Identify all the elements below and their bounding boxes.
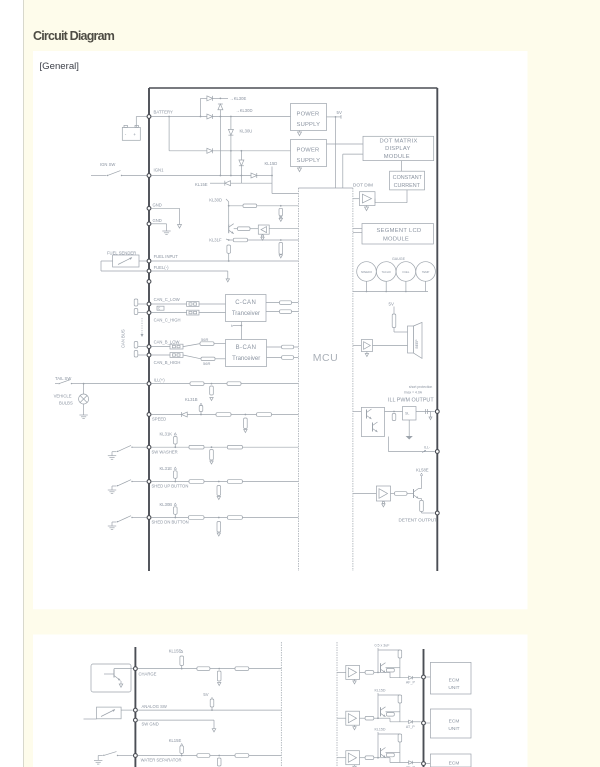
node DETENT OUTPUT terminal (435, 511, 439, 515)
comparator U3 box (258, 225, 269, 234)
ground marker below R11 (280, 216, 282, 218)
diode D7 IGN1 row (251, 173, 257, 178)
resistor R60 driver 1 load (398, 650, 402, 658)
resistor R30 speed series (216, 413, 231, 417)
svg-text:ILL(+): ILL(+) (154, 377, 166, 382)
gauge M4 TEMP (416, 262, 436, 282)
svg-text:SHED DN BUTTON: SHED DN BUTTON (152, 520, 189, 525)
capacitor C1 between CAN C lines (157, 306, 164, 310)
resistor R55 water series (197, 754, 210, 758)
node SW WASHER (147, 445, 151, 449)
svg-text:ANALOG SW: ANALOG SW (142, 704, 167, 709)
wire node2 to ECM2 (426, 722, 430, 724)
op-amp U10 injector driver 3 (346, 751, 360, 765)
svg-text:ECM: ECM (449, 761, 460, 767)
svg-text:KL15E: KL15E (169, 738, 182, 743)
node ILL minus terminal (435, 450, 439, 454)
wire driver 3 collector column (377, 732, 379, 758)
panel 2 white background (33, 635, 528, 767)
ground marker below dot dim amp (366, 206, 368, 208)
wire C-CAN to MCU lower (266, 311, 298, 313)
svg-text:KL15D: KL15D (375, 728, 386, 732)
wire amp to speaker (373, 345, 408, 347)
resistor R56 vertical water filter (217, 758, 221, 766)
resistor R44 shift down series 2 (227, 516, 242, 520)
wire R45 to speaker (393, 328, 395, 333)
resistor R22 CAN B low series (183, 344, 200, 347)
resistor R40 shift up series 2 (227, 480, 242, 484)
arrow ILL minus (422, 450, 426, 453)
wire BATTERY row to diode network (152, 116, 207, 118)
resistor R46 vertical on ILL output (392, 414, 396, 421)
node SPEED (147, 413, 151, 417)
svg-text:KL30U: KL30U (240, 129, 253, 134)
wire BATTERY row to power supply 1 (213, 116, 291, 118)
wire MCU to dot dim amp (353, 198, 360, 200)
svg-text:IGN SW: IGN SW (100, 162, 115, 167)
resistor R29 KL31B pull-up (199, 406, 203, 412)
diode D11 driver 2 output (409, 720, 413, 723)
svg-text:UNIT: UNIT (448, 726, 459, 732)
node injector output 1 (422, 675, 426, 679)
wire branch up to KL30E row (200, 98, 202, 116)
op-amp U2 dot dim driver (359, 192, 375, 206)
svg-text:DETENT OUTPUT: DETENT OUTPUT (399, 517, 438, 522)
resistor R64 driver 3 output (360, 757, 366, 759)
resistor R43 vertical shift down filter (217, 522, 221, 533)
wire SW GND to ground (138, 719, 214, 721)
wire column x241 to KL15E row (240, 151, 242, 160)
svg-text:Imax = 4.0A: Imax = 4.0A (404, 391, 423, 395)
wire diode D1 to KL30E label (213, 97, 228, 99)
svg-text:SUPPLY: SUPPLY (297, 158, 321, 164)
wire column x231 BATTERY to IGN row (230, 117, 232, 130)
resistor R51 vertical charge filter (217, 671, 221, 681)
switch WATER SEPARATOR (97, 756, 99, 761)
wire driver 2 collector column (377, 693, 379, 718)
wire R48 to detent node (421, 512, 423, 514)
svg-text:5V: 5V (203, 692, 208, 697)
svg-text:short protection: short protection (409, 385, 432, 389)
transistor Q6 driver 3 (380, 748, 382, 757)
svg-text:ILL-: ILL- (424, 445, 431, 449)
node spare terminal (147, 280, 151, 284)
ECM unit box 2 (430, 709, 471, 738)
resistor R39 vertical shift up filter (217, 486, 221, 496)
C-CAN tranceiver U4 box (226, 295, 267, 322)
svg-text:5V: 5V (389, 302, 394, 307)
svg-text:Tranceiver: Tranceiver (232, 311, 260, 317)
transistor pack Q2 ILL driver box (361, 407, 384, 436)
wire driver 2 to output node (378, 717, 390, 719)
resistor R17 CAN C termination (136, 312, 147, 314)
wire MCU to beeper amp (353, 345, 362, 347)
wire battery to BATTERY node (135, 117, 137, 128)
constant current box (390, 171, 425, 190)
earth ground below lamp (79, 414, 87, 416)
svg-text:WATER SEPARATOR: WATER SEPARATOR (141, 758, 182, 763)
svg-text:KL58E: KL58E (416, 467, 429, 472)
wire driver 1 to output node (378, 671, 390, 673)
resistor R65 driver 3 feedback (386, 753, 394, 757)
svg-text:KL31E: KL31E (160, 466, 173, 471)
switch TAIL SW (55, 383, 58, 385)
resistor R21 CAN B termination (136, 354, 147, 356)
diode D9 speed input pointing left (182, 412, 188, 417)
svg-text:[General]: [General] (40, 61, 79, 72)
resistor R41 shift down pull-up (174, 507, 178, 515)
wire diode to resistor R30 (187, 414, 216, 416)
node injector output 3 (422, 762, 426, 766)
zener D2 on column KL30E-BATTERY (218, 103, 223, 105)
ground marker below beeper amp (366, 352, 368, 354)
emc filter FL2 CAN C high (152, 312, 187, 314)
op-amp U6 beeper driver (361, 340, 372, 352)
wire CAN bus arrow (141, 318, 143, 334)
switch SHED DN BUTTON (111, 522, 113, 526)
sensor box RH1 (84, 718, 97, 720)
wire R30 to junction (231, 414, 257, 416)
B-CAN tranceiver U5 box (226, 340, 267, 367)
wire ILL driver output row (385, 411, 435, 413)
panel2 connector bus right (423, 649, 425, 767)
svg-text:CAN BUS: CAN BUS (121, 329, 126, 348)
diode D4 vertical KL30U column (228, 129, 233, 135)
resistor R35 vertical washer filter (210, 450, 214, 461)
alternator box A1 (91, 664, 131, 692)
svg-text:TEMP: TEMP (422, 270, 430, 274)
wire driver 3 to output node (378, 757, 390, 759)
resistor R14 vertical below KL31F row (279, 243, 283, 255)
svg-text:SPEEDO: SPEEDO (361, 270, 372, 274)
lamp L1 vehicle bulb (83, 384, 85, 394)
svg-text:TACHO: TACHO (382, 270, 391, 274)
svg-text:KL30B: KL30B (160, 502, 173, 507)
wire shift down row (152, 517, 299, 519)
wire analog row to MCU (138, 709, 281, 711)
resistor R31 vertical speed filter (244, 418, 248, 429)
wire IGN1 row junctions (152, 175, 251, 177)
wire PS1 output 5V (327, 116, 342, 118)
wire charge row to MCU (138, 668, 281, 670)
ground marker below driver 1 (354, 679, 356, 681)
wire lamp to earth (83, 404, 85, 415)
node FUEL INPUT (147, 259, 151, 263)
resistor R12 comparator input (238, 227, 251, 231)
resistor R48 detent emitter (420, 500, 424, 511)
resistor R45 speaker supply (392, 314, 396, 328)
wire MCU to segment LCD (353, 228, 362, 230)
wire node3 to ECM3 (426, 763, 430, 765)
wire gauge bus to MCU (353, 291, 428, 293)
resistor R54 water pull-up (180, 746, 184, 754)
emc filter FL4 CAN B high (152, 354, 170, 356)
resistor R49 charge pull-up (180, 656, 184, 666)
svg-text:DISPLAY: DISPLAY (385, 146, 410, 152)
svg-text:CAN_B_HIGH: CAN_B_HIGH (154, 360, 181, 365)
node ILL PWM OUTPUT terminal (435, 410, 439, 414)
resistor R42 shift down series (188, 516, 204, 520)
node CAN_B_HIGH (147, 353, 151, 357)
resistor R32 speed series 2 (257, 413, 272, 417)
wire C-CAN to B-CAN link (240, 322, 242, 340)
gauge M1 SPEEDO (357, 262, 377, 282)
svg-text:BULBS: BULBS (59, 401, 73, 406)
node WATER SEPARATOR (134, 754, 138, 758)
svg-text:Tranceiver: Tranceiver (232, 356, 260, 362)
svg-text:MODULE: MODULE (384, 154, 410, 160)
wire C-CAN to MCU upper (266, 302, 298, 304)
ECM unit box 1 (430, 662, 471, 694)
svg-text:0.5 x 3uF: 0.5 x 3uF (375, 644, 391, 648)
wire 5V rail down to MCU (335, 117, 337, 188)
resistor R66 driver 3 load (398, 734, 402, 742)
panel 1 white background (33, 51, 528, 609)
wire MCU to detent amp (353, 493, 377, 495)
svg-text:KL15E: KL15E (195, 182, 208, 187)
diode D12 driver 3 output (409, 761, 413, 764)
diode D5 backup row (207, 148, 213, 153)
wire snubber to ground (408, 420, 410, 436)
svg-text:KL31K: KL31K (160, 432, 173, 437)
resistor R38 shift up series (189, 480, 204, 484)
ground marker SW GND (212, 729, 216, 732)
panel2 MCU outline columns (280, 642, 282, 767)
wire washer row (152, 446, 299, 448)
wire MCU to display module (343, 153, 363, 155)
transistor Q4 driver 1 (380, 663, 382, 672)
node BATTERY terminal (147, 115, 151, 119)
svg-text:BATTERY: BATTERY (154, 110, 174, 115)
resistor R20 CAN B termination (136, 346, 147, 348)
wire FUEL minus loop to sender (101, 270, 147, 272)
wire KL58E to transistor (421, 476, 423, 485)
resistor R25 B-CAN rx (282, 356, 294, 360)
resistor R24 B-CAN tx (282, 345, 294, 349)
wire FUEL INPUT row to MCU (152, 260, 299, 262)
switch IGN SW (91, 175, 107, 177)
ECM unit box 3 (430, 754, 471, 767)
resistor R63 driver 2 load (398, 695, 402, 703)
svg-text:DOT DIM: DOT DIM (353, 182, 373, 188)
MCU U1 outline (298, 187, 353, 189)
node GND 2 (147, 222, 151, 226)
resistor R61 driver 2 output (360, 717, 366, 719)
resistor R13 KL31F row (233, 238, 247, 242)
svg-text:BEEP: BEEP (415, 339, 419, 349)
wire branch battery to backup row (168, 117, 170, 151)
wire water row to MCU (138, 755, 281, 757)
speaker SP1 (408, 326, 414, 353)
power supply PS2 box (291, 140, 327, 167)
wire GND2 to earth (152, 223, 167, 225)
wire FUEL minus to ground right (152, 270, 228, 272)
gauge M3 FUEL (396, 262, 416, 282)
svg-text:DOT MATRIX: DOT MATRIX (379, 138, 417, 144)
panel2 connector bus left (134, 647, 136, 767)
svg-text:FUEL: FUEL (402, 270, 409, 274)
wire KL15D column (271, 167, 273, 194)
snubber box SL1 (403, 407, 417, 421)
node injector output 2 (422, 721, 426, 725)
op-amp U9 injector driver 2 (346, 711, 360, 725)
ground marker below driver 2 (354, 725, 356, 727)
diode D8 KL15E row pointing left (225, 181, 231, 186)
resistor R16 CAN C termination (136, 303, 147, 305)
resistor R18 C-CAN tx (280, 301, 292, 305)
svg-text:IGN1: IGN1 (154, 168, 165, 173)
wire GND1 to chassis (152, 207, 180, 209)
diode D10 driver 1 output (409, 676, 413, 679)
svg-text:KL30D: KL30D (209, 198, 222, 203)
emc filter FL3 CAN B low (152, 346, 170, 348)
svg-text:KL15D: KL15D (375, 689, 386, 693)
resistor R53 analog pull-up (211, 697, 213, 699)
ground marker below R14 (279, 255, 282, 258)
node CAN_B_LOW (147, 345, 151, 349)
node ANALOG SW (134, 708, 138, 712)
svg-text:KL15E: KL15E (169, 648, 182, 653)
wire KL30D pull-up row (229, 205, 299, 207)
segment LCD module box (362, 224, 433, 245)
resistor R33 washer pull-up (174, 437, 178, 445)
switch SHED UP BUTTON (111, 486, 113, 490)
svg-text:ECM: ECM (449, 719, 460, 725)
wire diode D7 to KL15D junction (257, 175, 272, 177)
svg-text:SUPPLY: SUPPLY (297, 122, 321, 128)
power supply PS1 box (291, 104, 327, 131)
ground marker below R39 (217, 497, 220, 500)
resistor R23 CAN B high series (183, 355, 201, 359)
diode D1 KL30E row (207, 96, 213, 101)
wire ILL row to MCU (152, 383, 299, 385)
op-amp U7 detent driver (376, 486, 390, 501)
svg-text:b: b (231, 324, 233, 328)
svg-text:VEHICLE: VEHICLE (54, 394, 72, 399)
node SHED UP BUTTON (147, 480, 151, 484)
diode D3 BATTERY row (207, 114, 213, 119)
svg-text:+: + (133, 132, 136, 137)
resistor R11 vertical divider (279, 208, 283, 216)
switch SW WASHER (111, 452, 113, 456)
wire MCU to driver 2 (337, 717, 346, 719)
node CAN_C_LOW (147, 302, 151, 306)
svg-text:CAN_C_LOW: CAN_C_LOW (154, 297, 180, 302)
wire tail switch to ILL node (84, 383, 147, 385)
emc filter FL1 CAN C low (152, 303, 187, 305)
ground marker below R27 (210, 398, 213, 401)
resistor R62 driver 2 feedback (386, 713, 394, 717)
svg-text:KL15D: KL15D (265, 161, 278, 166)
wire backup row to power supply 2 (213, 150, 291, 152)
capacitor C2 at ILL output (425, 409, 427, 414)
wire alternator to CHARGE node (113, 668, 115, 671)
svg-text:C-CAN: C-CAN (235, 300, 256, 306)
wire connector frame top border (149, 87, 437, 89)
svg-text:Circuit Diagram: Circuit Diagram (33, 29, 115, 43)
resistor R36 washer series 2 (227, 445, 242, 449)
transistor Q1 fuel comparator input (228, 224, 230, 233)
wire KL15E row left segment (210, 182, 225, 184)
resistor R27 vertical ILL divider (210, 386, 214, 395)
svg-text:56R: 56R (201, 337, 208, 342)
diode D6 vertical KL15 column (239, 160, 244, 166)
svg-text:ILL PWM OUTPUT: ILL PWM OUTPUT (388, 398, 434, 404)
wire column x220 KL30E to IGN row (219, 110, 221, 176)
gauge M2 TACHO (376, 262, 396, 282)
wire Q1 to comparator (234, 228, 238, 230)
svg-text:UNIT: UNIT (448, 685, 459, 691)
svg-text:SW GND: SW GND (142, 722, 159, 727)
svg-text:CURRENT: CURRENT (394, 183, 421, 189)
ground marker below driver 3 (354, 765, 356, 767)
svg-text:GAUGE: GAUGE (392, 257, 406, 261)
wire comparator to MCU (269, 228, 298, 230)
node GND 1 (147, 206, 151, 210)
svg-text:SEGMENT LCD: SEGMENT LCD (376, 228, 421, 234)
wire node1 to ECM1 (426, 676, 430, 678)
wire display to constant current (401, 161, 403, 172)
transistor Q5 driver 2 (380, 707, 382, 716)
left border line (23, 0, 25, 767)
svg-text:SW WASHER: SW WASHER (152, 449, 178, 454)
svg-text:FUEL INPUT: FUEL INPUT (154, 254, 179, 259)
wire fuel sender to node (139, 260, 147, 262)
node IGN1 terminal (147, 174, 151, 178)
svg-text:→KL30D: →KL30D (236, 108, 253, 113)
svg-text:ECM: ECM (449, 678, 460, 684)
resistor R10 on pull-up row (243, 204, 257, 208)
svg-text:CONSTANT: CONSTANT (393, 175, 423, 181)
svg-text:B-CAN: B-CAN (236, 345, 257, 351)
svg-text:SHED UP BUTTON: SHED UP BUTTON (152, 484, 189, 489)
resistor R37 shift up pull-up (174, 471, 178, 479)
resistor R28 ILL row second (227, 382, 241, 386)
wire shift up row (152, 481, 299, 483)
svg-text:GND: GND (153, 218, 162, 223)
wire KL31F row to MCU (229, 239, 299, 241)
resistor R58 driver 1 output (360, 671, 366, 673)
wire PS2 output to display module (327, 143, 364, 145)
wire MCU to driver 1 (337, 671, 346, 673)
resistor R19 C-CAN rx (280, 310, 292, 314)
svg-text:→KL30E: →KL30E (230, 96, 247, 101)
node SW GND (134, 718, 138, 722)
node CAN_C_HIGH (147, 311, 151, 315)
svg-text:AF_P: AF_P (406, 681, 416, 685)
ground marker below R43 (217, 533, 220, 536)
op-amp U8 injector driver 1 (346, 665, 360, 679)
wire B-CAN to MCU lower (267, 357, 299, 359)
resistor R52 charge series 2 (235, 667, 249, 671)
dot matrix display module box (363, 136, 434, 160)
fuel sender box with rheostat arrow (113, 255, 139, 267)
left white margin strip (0, 0, 23, 767)
svg-text:POWER: POWER (297, 111, 320, 117)
connector left bus (148, 88, 150, 571)
svg-text:MODULE: MODULE (383, 236, 409, 242)
resistor R57 water series 2 (235, 754, 249, 758)
svg-text:AT_P: AT_P (406, 725, 415, 729)
ground marker below R51 (218, 683, 221, 686)
svg-text:KL31F: KL31F (209, 237, 222, 242)
resistor R50 charge series (197, 667, 210, 671)
resistor R47 detent base (391, 493, 395, 495)
svg-text:56R: 56R (203, 361, 210, 366)
wire B-CAN to MCU upper (267, 346, 299, 348)
wire filters to C-CAN tranceiver (199, 303, 226, 305)
ground marker below detent amp (382, 501, 384, 503)
